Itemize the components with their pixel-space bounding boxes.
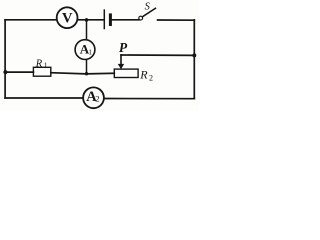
- voltmeter V circle: [57, 7, 78, 28]
- wire: voltmeter to battery: [78, 19, 104, 21]
- wire: ammeter A1 down to middle row: [86, 59, 88, 74]
- svg-text:S: S: [145, 1, 151, 12]
- svg-text:R: R: [35, 58, 43, 69]
- wire bottom: left corner to A2: [5, 97, 83, 99]
- svg-text:1: 1: [44, 61, 48, 70]
- rheostat R2 box: [114, 69, 138, 77]
- wire bottom: right segment from A2 to bottom-right corner: [104, 98, 194, 100]
- switch S blade: [142, 8, 155, 16]
- junction dot: left edge / middle row: [3, 70, 7, 74]
- svg-text:1: 1: [88, 47, 92, 56]
- resistor R1 box: [33, 67, 50, 76]
- junction dot: slider wire / right edge: [192, 53, 196, 57]
- switch S pivot circle: [139, 16, 143, 20]
- ammeter A1 circle: [75, 40, 95, 60]
- ammeter A2 circle: [83, 87, 104, 108]
- svg-text:P: P: [119, 40, 128, 55]
- battery cell: long plate (positive): [103, 10, 105, 28]
- wire left vertical edge: [4, 20, 6, 98]
- wire: switch to top-right corner: [158, 19, 195, 21]
- wire middle row: left edge to R1: [5, 71, 33, 73]
- battery cell: short thick plate (negative): [109, 15, 112, 25]
- svg-text:V: V: [62, 10, 73, 26]
- rheostat slider arrow shaft: [120, 55, 122, 64]
- wire: top wire down to ammeter A1: [86, 20, 88, 40]
- wire: battery to switch: [112, 19, 139, 21]
- svg-text:2: 2: [149, 74, 153, 83]
- svg-text:R: R: [139, 67, 148, 81]
- svg-text:2: 2: [95, 94, 99, 104]
- wire top-left: left corner to voltmeter: [5, 19, 57, 21]
- junction dot: middle row / A1 branch: [85, 72, 88, 75]
- wire right vertical edge: [193, 20, 195, 99]
- rheostat slider arrowhead: [118, 64, 124, 69]
- wire middle row: R1 to R2: [51, 73, 114, 74]
- wire: slider P to right vertical edge: [121, 54, 194, 56]
- junction dot: top wire / A1 branch: [85, 18, 89, 22]
